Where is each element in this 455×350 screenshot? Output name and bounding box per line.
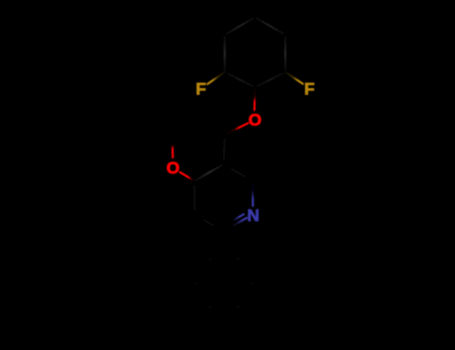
svg-text:O: O	[248, 110, 261, 129]
bond C2-C3 pyridine	[195, 215, 224, 232]
wire bond C5'-C6' right edge of difluorophenyl ring	[284, 35, 286, 72]
bond C3-C4 pyridine	[193, 181, 195, 215]
wire bond C6'-C1' lower-right edge of difluorophenyl ring	[255, 72, 285, 87]
wire bond phenyl meta-left to ortho-left	[195, 267, 197, 299]
bond C6'-F right	[285, 72, 303, 84]
bond C5-C6 pyridine	[224, 164, 253, 181]
bond C2-ipso phenyl	[222, 231, 225, 251]
wire bond phenyl para to meta-left	[196, 299, 224, 315]
svg-text:F: F	[196, 80, 206, 99]
bond C1'-O ether	[253, 87, 256, 110]
svg-text:O: O	[166, 159, 179, 178]
wire bond C4'-C5' upper-right edge of difluorophenyl ring	[255, 17, 285, 35]
bond O-C4 methoxy	[180, 172, 195, 181]
bond C6-N1 pyridine	[251, 181, 253, 206]
bond O-CH2 benzyl	[225, 123, 248, 134]
bond CH2-C3(pyridine ring) link	[224, 135, 226, 165]
double bond N1=C2 inner line	[234, 214, 244, 220]
wire bond phenyl ortho-left to ipso	[196, 251, 224, 267]
svg-text:F: F	[304, 80, 314, 99]
bond C2'-F left	[208, 72, 225, 84]
wire bond phenyl meta-right to para	[224, 299, 252, 315]
double bond N1=C2 outer line	[224, 218, 247, 231]
wire bond C1'-C2' lower-left edge of difluorophenyl ring	[225, 72, 255, 87]
bond CH3-O methoxy (red half)	[171, 146, 173, 157]
svg-text:N: N	[247, 206, 259, 225]
wire bond phenyl ortho-right to meta-right	[251, 267, 253, 299]
wire bond phenyl ipso to ortho-right	[224, 251, 252, 267]
wire bond C2'-C3' left edge of difluorophenyl ring	[224, 35, 226, 72]
wire bond C3'-C4' upper-left edge of difluorophenyl ring	[225, 17, 255, 35]
bond C4-C5 pyridine	[195, 164, 224, 181]
